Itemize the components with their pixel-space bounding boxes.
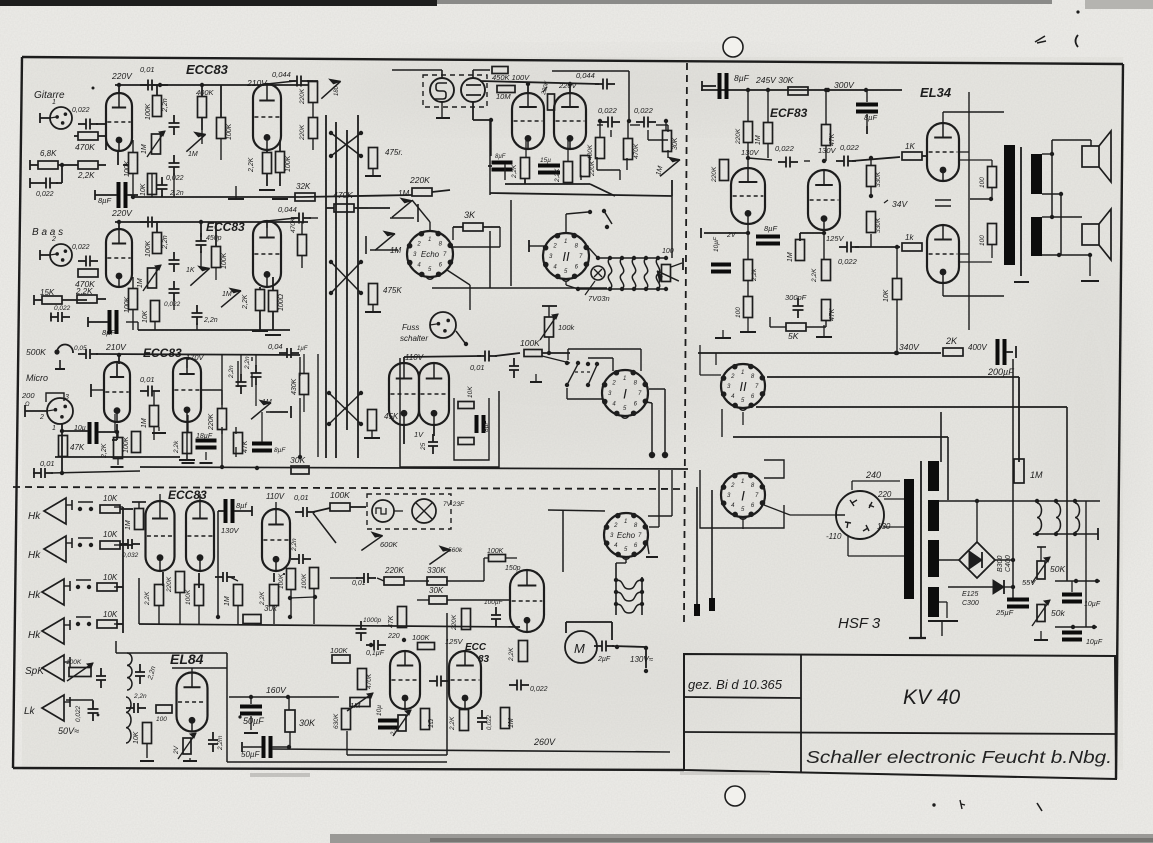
svg-text:340V: 340V [899, 342, 920, 352]
resistor 47K ecf b [822, 300, 837, 322]
resistor 330K trem [427, 558, 488, 585]
wire UL tap [970, 197, 993, 201]
resistor 100K vib [412, 633, 435, 650]
svg-text:1µF: 1µF [297, 346, 308, 352]
svg-text:200µF: 200µF [987, 367, 1014, 377]
capacitor 2,2n micro b [244, 354, 262, 406]
resistor 100K V2b [269, 291, 286, 312]
potentiometer 1M bass mid [186, 266, 210, 285]
potentiometer 220K echo top [541, 79, 555, 110]
capacitor 2,2m el84 [208, 732, 224, 752]
wire echo2 up b [649, 470, 659, 527]
svg-text:10K: 10K [103, 610, 118, 619]
title block divider vertical [800, 655, 802, 772]
svg-text:0,022: 0,022 [487, 714, 493, 730]
wire echo verticals [432, 200, 607, 288]
svg-text:1M: 1M [222, 291, 232, 298]
capacitor 0.022 tone [166, 155, 184, 182]
label HSF 3 [838, 615, 881, 632]
wire B+ rail [995, 359, 1015, 599]
output transformer core [1014, 147, 1029, 282]
svg-text:8µf: 8µf [236, 501, 247, 510]
wire [159, 593, 238, 624]
resistor 100K V5 [278, 569, 296, 590]
label 450K 100V [492, 73, 530, 82]
tube EL34 lower [927, 225, 959, 283]
svg-text:8µF: 8µF [864, 113, 877, 122]
svg-text:0,01: 0,01 [40, 459, 55, 468]
capacitor 18uF [196, 433, 217, 463]
resistor 2,2K vib [449, 710, 469, 732]
svg-text:1V: 1V [414, 430, 424, 439]
heater ladder rail left [614, 563, 618, 615]
resistor 100 el34 a [979, 167, 997, 189]
svg-text:B a a s: B a a s [32, 227, 63, 238]
resistor 1M vib [501, 708, 516, 729]
tube ECC83 V5 [262, 509, 290, 571]
resistor 6,8K [30, 149, 68, 170]
capacitor 2,2n slave a [291, 538, 311, 564]
resistor 10K hk3 [97, 573, 123, 591]
svg-text:HSF 3: HSF 3 [838, 615, 881, 632]
input horn Hk4 [42, 618, 70, 644]
wire [959, 152, 969, 254]
wire [447, 270, 470, 310]
capacitor 0.01 bass coupling [140, 217, 160, 228]
wire [473, 102, 493, 122]
svg-text:2,2k: 2,2k [173, 440, 180, 454]
svg-text:220K: 220K [451, 614, 458, 631]
resistor 15K [34, 288, 87, 305]
wire [236, 373, 252, 457]
wire grid T micro [91, 384, 104, 397]
socket II power [721, 364, 766, 411]
svg-text:330K: 330K [427, 566, 446, 575]
svg-text:220K: 220K [166, 576, 173, 593]
svg-text:1M: 1M [188, 151, 198, 158]
resistor 47K ecf [822, 125, 837, 147]
svg-text:210V: 210V [105, 342, 127, 352]
wire speaker bus [1050, 140, 1063, 257]
microphone connector XLR [39, 393, 73, 432]
wire echo2 left [548, 510, 605, 572]
svg-text:100K: 100K [412, 633, 431, 642]
svg-text:0,022: 0,022 [36, 191, 54, 198]
svg-text:470K: 470K [366, 673, 373, 689]
capacitor 0.022 bass tone [164, 281, 181, 308]
label 160V [266, 685, 287, 695]
svg-text:Hk: Hk [28, 550, 41, 561]
capacitor 0.01 micro lower [33, 459, 140, 478]
wire echo stage box [552, 71, 631, 123]
svg-text:25: 25 [420, 442, 427, 451]
wire [704, 224, 750, 297]
label 200 ohm [21, 391, 47, 417]
label 1V [414, 430, 424, 439]
tube ECC83 V3a [104, 362, 130, 422]
label 220 [877, 490, 892, 499]
potentiometer 1M echo [655, 157, 680, 176]
power transformer ground [909, 637, 926, 638]
svg-text:10M: 10M [496, 92, 511, 101]
svg-text:30K: 30K [290, 455, 305, 465]
svg-text:100: 100 [156, 716, 167, 723]
wire bias [1055, 579, 1100, 629]
svg-text:32K: 32K [296, 182, 311, 191]
resistor 30K slave [243, 604, 278, 624]
svg-text:100K: 100K [278, 573, 285, 589]
wire heater feed [566, 196, 672, 289]
wire [160, 494, 276, 509]
svg-text:2,2n: 2,2n [203, 317, 218, 324]
scan smudge under border [250, 772, 770, 777]
resistor 330K a [867, 166, 883, 188]
svg-text:400K: 400K [196, 88, 215, 97]
coil OT secondary slave [126, 693, 147, 743]
tube ECC83 trem osc [510, 570, 544, 632]
wire mixer bus v2 [335, 122, 337, 458]
svg-text:1M: 1M [137, 278, 144, 288]
svg-text:10µ: 10µ [376, 705, 383, 716]
wire 340V bus [698, 351, 941, 355]
svg-text:50K: 50K [1050, 564, 1065, 574]
potentiometer 1M mid [186, 132, 205, 158]
title block row line full [684, 732, 1115, 734]
heater ladder rung 3 [616, 604, 642, 613]
svg-text:EL34: EL34 [920, 85, 952, 100]
svg-text:7V03n: 7V03n [588, 294, 610, 303]
label Hk 1 [28, 511, 41, 522]
svg-text:100K: 100K [285, 155, 292, 172]
label 7V03 [588, 294, 610, 303]
wire [112, 424, 117, 440]
wire staircase b [756, 407, 1067, 581]
svg-text:10µF: 10µF [713, 236, 720, 252]
resistor 220K ecf [735, 122, 753, 146]
svg-text:100µF: 100µF [484, 599, 504, 606]
switch cross micro [327, 391, 363, 426]
input horn SpK [42, 655, 70, 681]
svg-text:400K: 400K [587, 144, 594, 160]
label 220V [111, 71, 133, 81]
svg-text:1K: 1K [905, 142, 915, 151]
svg-text:-110: -110 [826, 532, 842, 541]
capacitor 15uF echo [538, 157, 560, 175]
svg-text:10K: 10K [142, 310, 149, 323]
svg-text:180: 180 [334, 85, 340, 96]
wire rectifier top [975, 499, 979, 542]
resistor 1M ecf b [787, 240, 805, 263]
svg-text:1M: 1M [755, 135, 762, 145]
wire 160V line [229, 695, 339, 699]
bridge rectifier B300 C400 [959, 542, 995, 578]
capacitor 10uF vib [376, 705, 398, 730]
svg-text:330K: 330K [875, 171, 882, 187]
svg-text:240: 240 [865, 470, 881, 480]
svg-text:E125: E125 [962, 591, 978, 598]
svg-text:2,2n: 2,2n [169, 190, 184, 197]
wire [302, 218, 318, 268]
ground [179, 422, 195, 460]
ground [1034, 631, 1048, 640]
wire el34 plates [943, 112, 1004, 296]
svg-text:2,2m: 2,2m [217, 735, 224, 751]
label Hk 3 [28, 590, 41, 601]
svg-text:450p: 450p [206, 235, 222, 242]
resistor 100K bass tone [212, 247, 229, 270]
svg-text:5K: 5K [788, 331, 799, 341]
resistor 1K el34 b [902, 233, 922, 251]
switch power echo [588, 209, 612, 229]
svg-text:Micro: Micro [26, 373, 48, 383]
wire [611, 130, 668, 158]
tube ECC83 V1b [253, 84, 281, 150]
resistor 470K echo [624, 121, 641, 160]
resistor 475K c [368, 410, 399, 431]
resistor 10K hk1 [100, 494, 133, 513]
svg-text:2: 2 [613, 523, 618, 529]
potentiometer 360K trem2 [429, 546, 462, 564]
potentiometer 100K vol [540, 306, 576, 355]
wire [221, 218, 296, 296]
label 34V [884, 199, 908, 209]
capacitor 2,2n bass lower [192, 305, 218, 325]
heater bars el34 [935, 200, 951, 206]
wire [701, 90, 810, 238]
svg-text:8µF: 8µF [764, 224, 777, 233]
svg-text:2,2K: 2,2K [811, 268, 818, 283]
ground [259, 190, 288, 199]
wire [452, 120, 500, 247]
output transformer secondary b [1031, 217, 1042, 256]
resistor 2,2K bass [75, 287, 106, 303]
resistor 1M slave grid [125, 502, 146, 530]
svg-text:0,022: 0,022 [164, 301, 181, 308]
scan mark bottom right [932, 800, 1042, 811]
heater ladder rung 1 [616, 580, 642, 589]
ground [816, 325, 832, 337]
svg-text:50V≈: 50V≈ [58, 726, 79, 736]
svg-text:2,2n: 2,2n [291, 538, 298, 552]
resistor 47K micro 2 [234, 433, 250, 454]
resistor 1K el34 a [902, 142, 922, 160]
wire [152, 173, 174, 197]
svg-text:100K: 100K [145, 103, 152, 120]
capacitor 0.01 micro coupling [140, 375, 160, 397]
potentiometer 1M micro [251, 399, 291, 419]
capacitor 10uF ecf [711, 236, 731, 273]
wire heater tap 2 [939, 528, 1098, 540]
svg-text:2,5: 2,5 [391, 726, 397, 736]
resistor 330K b [867, 212, 883, 234]
potentiometer 500K micro [26, 344, 73, 369]
tremolo lamp box [367, 494, 465, 529]
svg-text:2: 2 [39, 414, 44, 421]
section divider horizontal dashed [13, 487, 685, 489]
svg-text:0,044: 0,044 [278, 205, 297, 214]
svg-text:1: 1 [52, 99, 56, 106]
svg-text:125V: 125V [826, 234, 845, 243]
svg-text:2: 2 [416, 241, 421, 247]
capacitor 8uF psu in [702, 73, 729, 99]
capacitor 8uF ecf [756, 224, 780, 246]
label Lk [24, 706, 36, 717]
svg-text:220K: 220K [735, 128, 742, 145]
capacitor 0.044 echo [576, 71, 615, 90]
svg-text:B300: B300 [997, 556, 1004, 572]
border frame left [13, 57, 22, 768]
capacitor 0.022 vib [509, 680, 548, 694]
resistor 30K trem [417, 586, 509, 604]
svg-text:1: 1 [741, 370, 744, 376]
resistor 220K micro [208, 354, 227, 467]
wire 8uF down [217, 511, 219, 617]
resistor 100K micro [123, 432, 141, 454]
svg-text:ECF83: ECF83 [770, 106, 808, 120]
tube ECC83 V6a [390, 651, 420, 709]
svg-text:47K: 47K [829, 308, 836, 321]
resistor 2,2K cathode V2b [242, 290, 265, 311]
tube ECC83 V2a [106, 229, 132, 287]
resistor 220K to echo [302, 175, 450, 197]
wire [267, 140, 280, 186]
svg-text:470K: 470K [75, 142, 95, 152]
svg-text:220V: 220V [111, 71, 133, 81]
svg-text:470K: 470K [290, 217, 297, 233]
svg-text:schalter: schalter [400, 334, 428, 343]
ground [436, 102, 450, 118]
wire [60, 424, 119, 475]
wire [260, 277, 273, 330]
svg-text:0,022: 0,022 [166, 175, 184, 182]
ground [365, 305, 381, 312]
capacitor 8uF slave [218, 499, 252, 535]
capacitor spk [96, 668, 106, 688]
capacitor 0.032 slave grid [120, 539, 140, 559]
resistor 475K b [369, 284, 403, 305]
switch hk2 [78, 538, 93, 547]
tube EL84 slave [177, 673, 208, 732]
speaker upper [1082, 131, 1111, 182]
svg-text:10K: 10K [467, 386, 474, 398]
wire 220V bus bass [115, 220, 308, 229]
wire 220V bus guitar [115, 83, 308, 93]
wire [112, 364, 128, 458]
svg-text:0,01: 0,01 [470, 363, 485, 372]
svg-text:0,022: 0,022 [530, 686, 548, 693]
socket II preamp [543, 233, 589, 281]
resistor 30K psu [788, 87, 808, 95]
capacitor 8uF electrolytic bass [88, 310, 119, 337]
label 150p [505, 565, 521, 572]
label 8uF psu [734, 73, 750, 83]
resistor 100K bass g2 [145, 233, 162, 258]
resistor 10K [140, 174, 157, 197]
capacitor 0.01 coupling [140, 65, 160, 91]
punch hole bottom [725, 786, 745, 806]
capacitor 50uF b [241, 736, 289, 759]
wire [542, 356, 570, 363]
wire trem feedback [347, 613, 447, 755]
svg-text:2,2K: 2,2K [511, 164, 518, 179]
heater ladder bottom rail [576, 287, 668, 291]
label Hk 2 [28, 550, 41, 561]
svg-text:100: 100 [979, 177, 986, 188]
resistor 1k vib [421, 709, 436, 730]
tube ECC83 V6b [449, 651, 481, 709]
wire HT tap [939, 559, 959, 561]
svg-text:0,032: 0,032 [122, 552, 139, 559]
potentiometer 1M treble [141, 131, 165, 157]
svg-text:2: 2 [552, 243, 557, 249]
resistor 10K hk4 [97, 610, 123, 628]
svg-text:2V: 2V [173, 745, 180, 755]
resistor 47K micro [59, 436, 85, 457]
resistor 2,2K guitar [68, 161, 106, 180]
label 130 [877, 522, 891, 531]
label Gitarre [34, 90, 65, 101]
resistor 470K mix bus [326, 190, 368, 212]
svg-text:1M: 1M [141, 144, 148, 154]
wire [855, 234, 900, 247]
svg-text:100K: 100K [301, 573, 308, 589]
capacitor 450p [196, 233, 222, 253]
svg-text:100K: 100K [66, 659, 82, 666]
potentiometer mixer top [321, 79, 340, 98]
heater ladder rungs [608, 256, 660, 291]
svg-text:2,2n: 2,2n [244, 356, 251, 370]
svg-text:220K: 220K [589, 160, 596, 177]
svg-text:400V: 400V [968, 343, 987, 352]
wire guitar bottom bus [134, 196, 302, 198]
resistor 30K el84 [285, 697, 316, 749]
svg-text:ECC83: ECC83 [143, 346, 182, 360]
resistor 100K slave [313, 490, 366, 512]
label 110 [826, 532, 842, 541]
svg-text:150p: 150p [505, 565, 521, 572]
svg-text:0,022: 0,022 [598, 106, 618, 115]
svg-text:220: 220 [387, 633, 400, 640]
svg-text:220K: 220K [409, 175, 430, 185]
input horn Hk2 [44, 536, 72, 562]
svg-text:100Ω: 100Ω [278, 293, 285, 311]
resistor 220K mixer top [299, 82, 318, 106]
resistor 10K mixer b [458, 438, 474, 445]
svg-text:8µF: 8µF [274, 447, 286, 454]
output transformer secondary a [1031, 154, 1042, 194]
wire hk collector [114, 507, 127, 633]
footswitch jack [430, 312, 468, 346]
indicator tubes dashed box [423, 75, 487, 107]
wire diag 0.01 [313, 513, 336, 543]
svg-text:34V: 34V [892, 199, 908, 209]
svg-text:30K: 30K [299, 718, 316, 728]
svg-text:100K: 100K [226, 123, 233, 140]
resistor 10K mixer a [458, 386, 474, 409]
wire mixer bus v3 [346, 130, 348, 430]
wire heater tap [939, 499, 1100, 503]
wire bottom bus slave [272, 749, 670, 752]
resistor 2,2K V4a cathode [144, 585, 164, 607]
capacitor slave couple [215, 572, 238, 582]
ground [715, 330, 731, 338]
potentiometer 100 heater [657, 248, 683, 282]
wire [1059, 253, 1099, 281]
svg-text:8µF: 8µF [98, 196, 111, 205]
wire mixer bus v4 [357, 115, 359, 458]
tube ECF83 pentode [808, 170, 840, 230]
motor M [565, 631, 597, 663]
